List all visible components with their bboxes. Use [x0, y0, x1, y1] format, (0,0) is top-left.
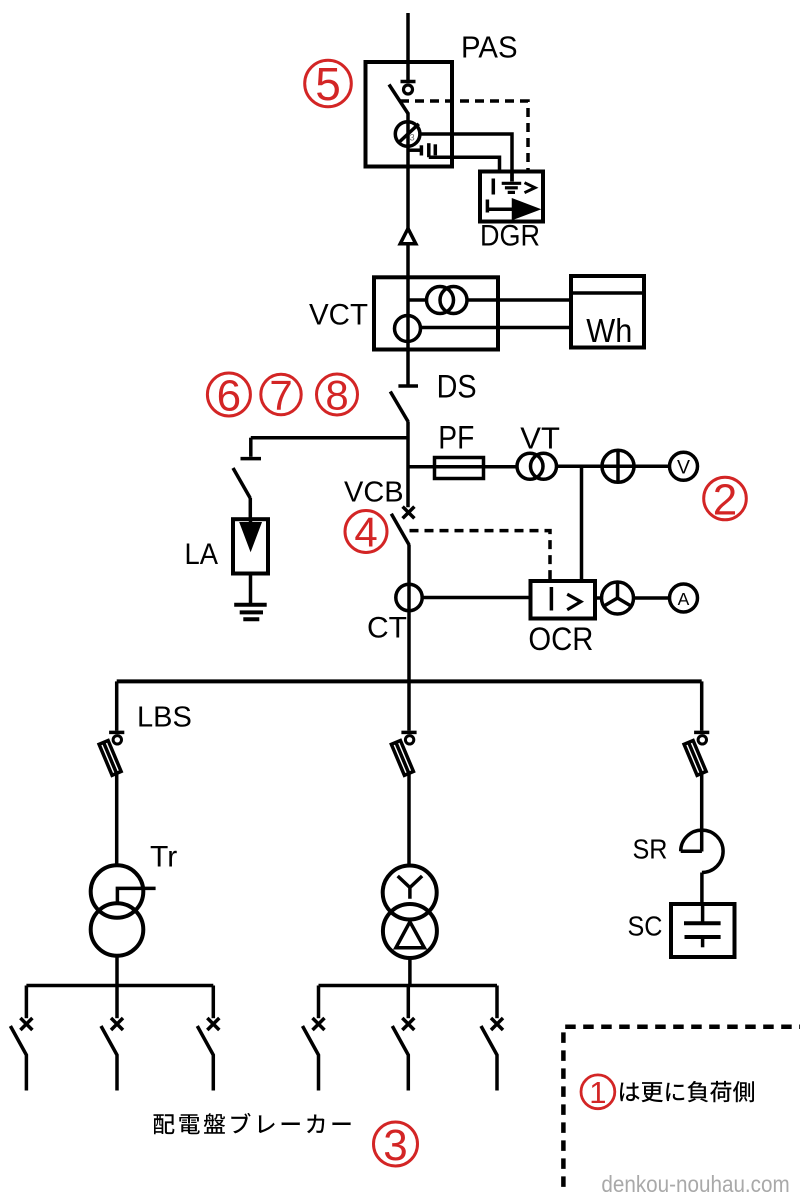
svg-text:SR: SR — [633, 834, 668, 865]
svg-text:3: 3 — [410, 132, 415, 142]
AS changeover switch circle — [602, 582, 634, 614]
svg-text:Wh: Wh — [586, 312, 632, 349]
branch breaker drop wire — [407, 986, 411, 1019]
VCT CT circle left — [427, 287, 454, 314]
svg-text:PAS: PAS — [461, 30, 518, 65]
breaker blade and tail wire — [303, 1026, 319, 1091]
VCT CT tap wire — [408, 298, 427, 302]
V meter circle — [670, 452, 698, 480]
wire VT to V meter — [557, 465, 670, 469]
red circled number 7 — [261, 372, 301, 419]
svg-text:8: 8 — [325, 372, 348, 419]
Wh box divider — [571, 291, 644, 295]
svg-text:VCT: VCT — [309, 299, 368, 332]
AS lower-right spoke — [618, 598, 632, 606]
red circled number 8 — [317, 372, 358, 419]
panel breaker label 配電盤ブレーカー — [154, 1113, 351, 1134]
red circled number 5 — [305, 58, 352, 110]
breaker contact X — [491, 1018, 503, 1030]
DGR earth bar 1 — [502, 182, 522, 185]
DGR arrow tick — [486, 200, 490, 213]
red circled number 6 — [207, 371, 250, 420]
breaker contact X — [402, 1018, 414, 1030]
load side note は更に負荷側 — [620, 1081, 754, 1102]
LBS fixed contact bar — [694, 731, 709, 735]
wire SR to SC — [700, 873, 704, 905]
LBS fuse blade — [99, 741, 121, 776]
incoming service wire — [406, 13, 410, 82]
PAS switch contact circle — [404, 85, 413, 94]
VT circle left — [517, 453, 543, 479]
PF fuse box — [435, 458, 484, 479]
LBS contact circle — [698, 736, 706, 744]
dashed load-side box — [563, 1027, 800, 1187]
LBS fixed contact bar — [109, 731, 124, 735]
VCB contact X — [403, 507, 415, 519]
DGR arrow shaft — [487, 207, 516, 211]
transformer2 top circle — [383, 866, 437, 920]
svg-text:A: A — [678, 589, 690, 609]
VCB blade — [391, 514, 409, 546]
transformer2 wye mark — [398, 876, 422, 899]
breaker blade and tail wire — [101, 1026, 117, 1091]
svg-text:CT: CT — [367, 612, 407, 645]
wire VCB to bus — [407, 545, 411, 681]
ZCT slash — [398, 124, 419, 143]
SC cap plate 1 — [684, 921, 721, 925]
LBS contact circle — [405, 736, 413, 744]
Wh meter box — [571, 276, 644, 348]
breaker blade and tail wire — [197, 1026, 213, 1091]
wire AS to A meter — [634, 596, 670, 600]
left branch drop — [115, 681, 119, 730]
wire through VCT down to DS — [406, 277, 410, 385]
LA arrow head — [242, 524, 260, 548]
VS changeover switch circle — [602, 450, 634, 482]
OCR greater-than — [567, 594, 581, 610]
wire blade through ZCT down to cable head — [406, 113, 410, 230]
CT circle — [396, 584, 422, 610]
OCR I bar — [550, 587, 554, 611]
earth terminal bar 1 — [420, 145, 424, 155]
breaker blade and tail wire — [481, 1026, 497, 1091]
LA branch drop wire — [249, 438, 253, 457]
branch breaker drop wire — [115, 986, 119, 1019]
svg-text:3: 3 — [383, 1121, 407, 1170]
AS lower-left spoke — [604, 598, 618, 606]
LA switch blade — [233, 468, 250, 498]
wire Tr to panel — [115, 956, 119, 986]
wire mid LBS to transformer — [407, 773, 411, 866]
wire VCT CT to Wh — [467, 298, 571, 302]
LBS contact circle — [113, 736, 121, 744]
wire VCT VT to Wh — [421, 326, 572, 330]
cable head triangle — [400, 229, 416, 244]
OCR relay box — [531, 581, 596, 619]
PAS switch blade — [389, 85, 408, 114]
wire transformer2 to panel — [408, 958, 412, 986]
svg-text:LA: LA — [185, 538, 219, 571]
svg-text:denkou-nouhau.com: denkou-nouhau.com — [601, 1171, 789, 1197]
breaker contact X — [313, 1018, 325, 1030]
SC capacitor box — [671, 904, 735, 957]
SR reactor arc — [681, 830, 723, 872]
wire cable head to VCT — [406, 244, 410, 277]
red circled number 3 — [374, 1121, 418, 1170]
branch breaker drop wire — [212, 986, 216, 1019]
bus bar — [117, 679, 702, 683]
DGR relay box — [480, 172, 543, 222]
SC cap plate 2 — [685, 935, 721, 939]
breaker contact X — [207, 1018, 219, 1030]
svg-text:DS: DS — [437, 369, 477, 405]
DGR I bar — [492, 179, 496, 195]
PAS enclosure box — [366, 62, 453, 167]
wire VT branch down to OCR — [580, 466, 584, 581]
wire left LBS to Tr — [115, 773, 119, 865]
dashed trip wire PAS to DGR — [400, 101, 528, 172]
svg-text:VT: VT — [520, 420, 560, 455]
LA arrester box — [233, 519, 268, 573]
breaker contact X — [20, 1018, 32, 1030]
control wire earth terminal to DGR — [429, 157, 500, 171]
wire LA blade to arrester — [249, 498, 253, 519]
VCT box — [374, 277, 498, 349]
branch breaker drop wire — [317, 986, 321, 1019]
svg-text:VCB: VCB — [344, 477, 404, 509]
svg-text:7: 7 — [269, 372, 292, 419]
red circled number 1 — [581, 1075, 615, 1110]
svg-text:4: 4 — [354, 509, 377, 556]
LA switch fixed contact bar — [241, 457, 262, 461]
svg-text:LBS: LBS — [137, 702, 192, 734]
right branch drop — [700, 681, 704, 730]
PAS earth terminal lead — [408, 148, 420, 152]
svg-text:1: 1 — [589, 1075, 606, 1110]
Tr winding mark — [117, 888, 155, 902]
DGR earth bar 3 — [508, 191, 515, 194]
LBS fuse blade — [391, 741, 413, 776]
VT circle right — [531, 453, 557, 479]
LBS fuse blade — [684, 741, 706, 776]
A meter circle — [670, 584, 698, 612]
svg-text:6: 6 — [217, 371, 241, 420]
LA ground bar 3 — [243, 617, 259, 621]
DGR arrow head — [514, 201, 537, 218]
AS top spoke — [616, 582, 620, 598]
wire CT to OCR — [422, 596, 530, 600]
VCT VT circle — [395, 316, 421, 342]
svg-text:Tr: Tr — [150, 841, 177, 874]
branch wire to LA — [251, 436, 408, 440]
DGR greater-than — [525, 183, 536, 193]
earth terminal bar 3 — [434, 144, 438, 155]
svg-text:PF: PF — [438, 420, 474, 456]
svg-text:5: 5 — [315, 58, 341, 110]
Tr top circle — [91, 865, 144, 918]
branch breaker drop wire — [25, 986, 29, 1019]
SC cap lead — [701, 904, 705, 923]
breaker contact X — [111, 1018, 123, 1030]
wire LA to ground — [249, 574, 253, 605]
red circled number 2 — [704, 475, 747, 524]
DS blade — [390, 392, 408, 423]
control wire ZCT to DGR — [419, 134, 512, 182]
left panel header wire — [26, 984, 213, 988]
LBS fixed contact bar — [401, 731, 416, 735]
wire right LBS to SR — [700, 773, 704, 852]
earth terminal bar 2 — [427, 143, 431, 157]
breaker blade and tail wire — [10, 1026, 26, 1091]
svg-text:V: V — [677, 456, 690, 478]
VCT CT circle right — [440, 287, 467, 314]
DGR earth bar 2 — [505, 186, 518, 189]
SC cap stub — [701, 937, 705, 947]
mid panel header wire — [319, 984, 498, 988]
PAS switch fixed contact bar — [401, 80, 416, 84]
branch breaker drop wire — [495, 986, 499, 1019]
svg-text:DGR: DGR — [480, 220, 540, 253]
wire OCR to AS — [595, 596, 602, 600]
LA arrow lead — [249, 519, 253, 546]
DGR earth symbol lead — [510, 172, 514, 182]
transformer2 bottom circle — [383, 904, 437, 958]
svg-text:SC: SC — [628, 911, 663, 942]
VS vertical spoke — [616, 450, 620, 483]
middle branch drop — [407, 681, 411, 730]
dashed trip wire VCB to OCR — [410, 531, 551, 581]
svg-text:2: 2 — [713, 475, 737, 524]
DS fixed contact bar — [398, 384, 418, 388]
transformer2 delta mark — [396, 922, 424, 948]
ZCT circle — [395, 122, 420, 147]
LA ground bar 2 — [240, 610, 263, 614]
red circled number 4 — [345, 509, 387, 556]
wire main to PF — [408, 465, 517, 469]
Tr bottom circle — [91, 903, 144, 956]
wire DS to VCB — [406, 422, 410, 508]
LA ground bar 1 — [234, 603, 267, 607]
SR center tap — [681, 850, 702, 854]
svg-text:OCR: OCR — [528, 621, 593, 657]
breaker blade and tail wire — [392, 1026, 408, 1091]
